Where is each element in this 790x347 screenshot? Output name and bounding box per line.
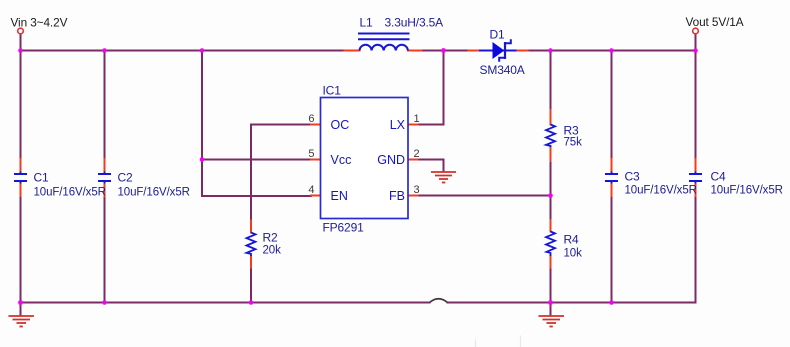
svg-text:6: 6 — [308, 113, 314, 125]
svg-text:FB: FB — [389, 189, 405, 203]
svg-text:3: 3 — [414, 184, 420, 196]
svg-text:10uF/16V/x5R: 10uF/16V/x5R — [34, 187, 106, 199]
svg-text:3.3uH/3.5A: 3.3uH/3.5A — [385, 16, 444, 30]
svg-text:5: 5 — [308, 148, 314, 160]
svg-text:10uF/16V/x5R: 10uF/16V/x5R — [625, 185, 697, 197]
svg-text:IC1: IC1 — [323, 84, 342, 98]
svg-text:R3: R3 — [564, 124, 580, 138]
svg-text:C2: C2 — [118, 171, 134, 185]
svg-text:20k: 20k — [263, 245, 282, 257]
svg-text:10uF/16V/x5R: 10uF/16V/x5R — [118, 187, 190, 199]
svg-text:D1: D1 — [490, 28, 506, 42]
svg-text:1: 1 — [414, 113, 420, 125]
svg-text:Vcc: Vcc — [331, 153, 352, 167]
svg-text:C1: C1 — [34, 171, 50, 185]
svg-text:2: 2 — [414, 148, 420, 160]
svg-text:OC: OC — [331, 118, 350, 132]
svg-text:4: 4 — [308, 184, 314, 196]
svg-text:R2: R2 — [263, 231, 279, 245]
svg-text:EN: EN — [331, 189, 348, 203]
svg-text:C3: C3 — [625, 170, 641, 184]
svg-text:Vin 3~4.2V: Vin 3~4.2V — [11, 16, 68, 30]
svg-text:10uF/16V/x5R: 10uF/16V/x5R — [711, 185, 783, 197]
svg-text:R4: R4 — [564, 233, 580, 247]
svg-text:FP6291: FP6291 — [323, 221, 365, 235]
svg-text:GND: GND — [377, 153, 405, 167]
svg-text:75k: 75k — [564, 137, 583, 149]
svg-text:C4: C4 — [711, 170, 727, 184]
svg-text:Vout 5V/1A: Vout 5V/1A — [686, 15, 744, 29]
svg-text:10k: 10k — [564, 248, 583, 260]
svg-text:L1: L1 — [360, 16, 374, 30]
svg-text:LX: LX — [390, 118, 406, 132]
svg-text:SM340A: SM340A — [480, 63, 525, 77]
